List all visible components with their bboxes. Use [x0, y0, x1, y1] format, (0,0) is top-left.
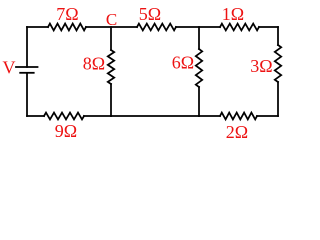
label 3Ω	[250, 56, 272, 76]
label V (voltage source)	[3, 58, 16, 78]
resistor 9Ω	[44, 113, 84, 120]
resistor 1Ω	[220, 24, 259, 31]
wire bottom rail 6Ω junction to 2Ω	[199, 115, 220, 117]
wire right edge bottom (3Ω to bottom-right corner)	[277, 82, 279, 116]
resistor 8Ω	[108, 50, 114, 84]
wire bottom rail 2Ω to bottom-right corner	[257, 115, 278, 117]
svg-text:C: C	[106, 10, 117, 29]
wire top rail 5Ω to node D	[176, 26, 220, 28]
wire top rail 7Ω to node C	[86, 26, 137, 28]
label 2Ω	[226, 122, 248, 142]
wire node D vertical drop to 6Ω	[198, 27, 200, 49]
resistor 5Ω	[137, 24, 176, 31]
svg-text:1Ω: 1Ω	[222, 4, 244, 24]
svg-text:V: V	[3, 58, 16, 78]
wire right edge top (corner to 3Ω)	[277, 27, 279, 45]
svg-text:9Ω: 9Ω	[55, 121, 77, 141]
label 9Ω	[55, 121, 77, 141]
label 7Ω	[56, 4, 78, 24]
svg-text:3Ω: 3Ω	[250, 56, 272, 76]
label 6Ω	[172, 53, 194, 73]
voltage source V (battery)	[16, 67, 38, 73]
wire bottom rail 9Ω to 8Ω junction	[84, 115, 111, 117]
svg-text:5Ω: 5Ω	[139, 4, 161, 24]
label 5Ω	[139, 4, 161, 24]
resistor 7Ω	[48, 24, 86, 31]
svg-text:8Ω: 8Ω	[83, 54, 105, 74]
wire top-left vertical (battery + to top rail)	[26, 27, 28, 67]
label 8Ω	[83, 54, 105, 74]
wire top rail left lead to 7Ω	[27, 26, 48, 28]
label 1Ω	[222, 4, 244, 24]
svg-text:6Ω: 6Ω	[172, 53, 194, 73]
wire 8Ω to bottom rail junction	[110, 84, 112, 116]
svg-text:2Ω: 2Ω	[226, 122, 248, 142]
node C label	[106, 10, 117, 29]
wire top rail 1Ω to top-right corner	[259, 26, 278, 28]
wire 6Ω to bottom rail junction	[198, 87, 200, 116]
wire node C vertical drop to 8Ω	[110, 27, 112, 50]
svg-text:7Ω: 7Ω	[56, 4, 78, 24]
wire bottom rail left lead to 9Ω	[27, 115, 44, 117]
wire bottom rail 8Ω junction to 6Ω junction	[111, 115, 199, 117]
wire bottom-left vertical (battery - to bottom rail)	[26, 73, 28, 116]
resistor 6Ω	[196, 49, 202, 87]
resistor 2Ω	[220, 113, 257, 120]
resistor 3Ω	[275, 45, 281, 82]
